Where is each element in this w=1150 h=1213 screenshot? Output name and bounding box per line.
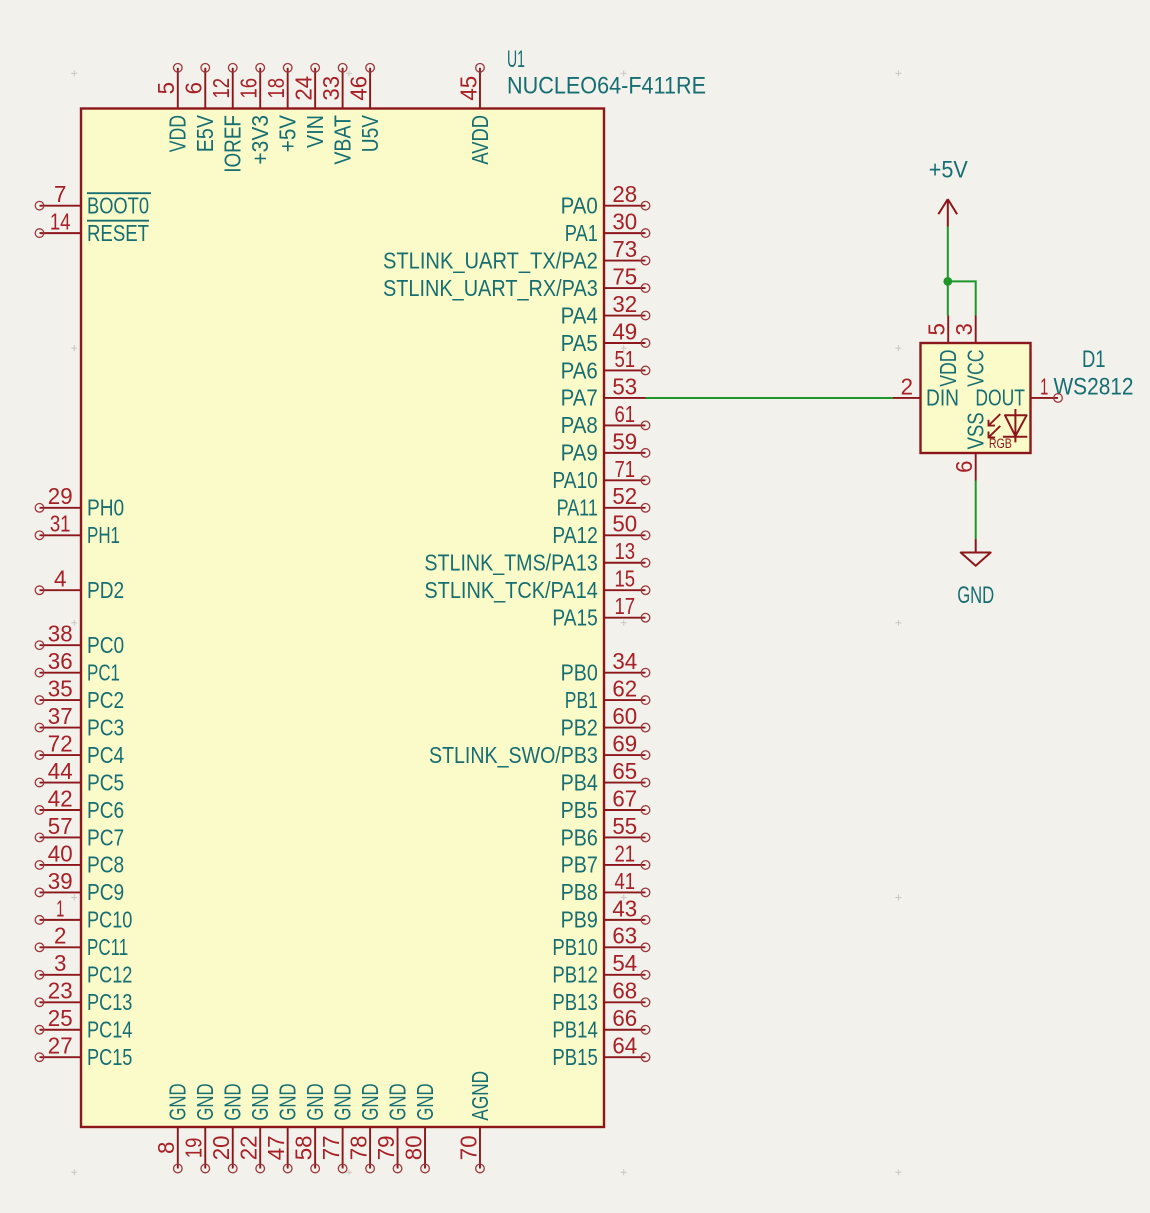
- svg-text:GND: GND: [412, 1083, 438, 1120]
- svg-text:+3V3: +3V3: [247, 115, 273, 165]
- svg-text:29: 29: [48, 483, 73, 509]
- svg-text:1: 1: [1040, 373, 1048, 399]
- svg-text:78: 78: [346, 1135, 372, 1160]
- svg-text:62: 62: [612, 676, 637, 702]
- D1 pin 2 DIN (left): [893, 373, 959, 410]
- U1 pin 65 PB4 (right): [561, 758, 650, 795]
- U1 pin 57 PC7 (left): [35, 813, 124, 850]
- svg-text:6: 6: [951, 461, 977, 473]
- svg-text:VIN: VIN: [302, 115, 328, 148]
- U1 pin 55 PB6 (right): [561, 813, 650, 850]
- U1 pin 77 GND (bottom): [318, 1083, 355, 1172]
- svg-text:PA7: PA7: [561, 385, 598, 411]
- svg-text:RESET: RESET: [87, 220, 149, 246]
- svg-text:12: 12: [208, 78, 234, 99]
- svg-text:30: 30: [612, 209, 637, 235]
- U1 pin 31 PH1 (left): [35, 511, 120, 548]
- svg-text:37: 37: [48, 703, 73, 729]
- svg-text:80: 80: [400, 1135, 426, 1160]
- svg-text:U1: U1: [507, 46, 525, 73]
- U1 pin 59 PA9 (right): [561, 428, 650, 465]
- svg-text:GND: GND: [275, 1083, 301, 1120]
- power symbol +5V: [929, 156, 968, 226]
- U1 pin 27 PC15 (left): [35, 1033, 132, 1070]
- svg-text:PB5: PB5: [561, 797, 598, 823]
- U1 pin 2 PC11 (left): [35, 923, 128, 960]
- svg-text:STLINK_TMS/PA13: STLINK_TMS/PA13: [424, 550, 597, 576]
- U1 pin 36 PC1 (left): [35, 648, 120, 685]
- svg-text:65: 65: [612, 758, 637, 784]
- svg-text:GND: GND: [357, 1083, 383, 1120]
- U1 pin 15 STLINK_TCK/PA14 (right): [424, 566, 649, 603]
- svg-text:2: 2: [901, 373, 913, 399]
- U1 pin 71 PA10 (right): [552, 456, 649, 493]
- svg-text:PC5: PC5: [87, 769, 124, 795]
- U1 pin 62 PB1 (right): [565, 676, 650, 713]
- svg-text:25: 25: [48, 1005, 73, 1031]
- U1 pin 23 PC13 (left): [35, 978, 132, 1015]
- U1 pin 41 PB8 (right): [561, 868, 650, 905]
- U1 pin 16 +3V3 (top): [236, 64, 273, 165]
- U1 pin 19 GND (bottom): [181, 1083, 218, 1172]
- U1 pin 30 PA1 (right): [565, 209, 650, 246]
- U1 pin 24 VIN (top): [291, 64, 328, 149]
- U1 pin 38 PC0 (left): [35, 621, 124, 658]
- U1 pin 58 GND (bottom): [291, 1083, 328, 1172]
- svg-text:PC4: PC4: [87, 742, 124, 768]
- svg-text:PB9: PB9: [561, 907, 598, 933]
- svg-text:42: 42: [48, 785, 73, 811]
- svg-text:77: 77: [318, 1135, 344, 1160]
- svg-text:GND: GND: [329, 1083, 355, 1120]
- svg-text:71: 71: [615, 456, 636, 482]
- svg-text:PA0: PA0: [561, 193, 598, 219]
- U1 pin 3 PC12 (left): [35, 950, 132, 987]
- svg-text:PA11: PA11: [557, 495, 598, 521]
- svg-text:AVDD: AVDD: [467, 115, 493, 165]
- D1 pin 3 VCC (top): [951, 316, 988, 387]
- svg-text:GND: GND: [165, 1083, 191, 1120]
- U1 pin 4 PD2 (left): [35, 566, 124, 603]
- U1 pin 44 PC5 (left): [35, 758, 124, 795]
- svg-text:E5V: E5V: [192, 114, 218, 152]
- U1 pin 29 PH0 (left): [35, 483, 124, 520]
- svg-text:50: 50: [612, 511, 637, 537]
- svg-text:+5V: +5V: [275, 114, 301, 152]
- svg-text:19: 19: [181, 1138, 207, 1159]
- svg-text:VSS: VSS: [963, 412, 989, 449]
- svg-text:GND: GND: [384, 1083, 410, 1120]
- svg-text:PH1: PH1: [87, 522, 120, 548]
- U1 pin 50 PA12 (right): [552, 511, 649, 548]
- svg-text:21: 21: [615, 840, 636, 866]
- svg-text:+5V: +5V: [929, 156, 968, 183]
- svg-text:38: 38: [48, 621, 73, 647]
- svg-text:33: 33: [318, 76, 344, 101]
- svg-text:PA4: PA4: [561, 302, 598, 328]
- D1 pin 6 VSS (bottom): [951, 412, 988, 480]
- svg-text:STLINK_UART_TX/PA2: STLINK_UART_TX/PA2: [383, 247, 598, 273]
- svg-text:PA6: PA6: [561, 357, 598, 383]
- svg-text:GND: GND: [957, 582, 994, 609]
- U1 pin 78 GND (bottom): [346, 1083, 383, 1172]
- svg-text:31: 31: [50, 511, 71, 537]
- U1 pin 66 PB14 (right): [552, 1005, 649, 1042]
- svg-text:36: 36: [48, 648, 73, 674]
- U1 pin 68 PB13 (right): [552, 978, 649, 1015]
- svg-text:GND: GND: [220, 1083, 246, 1120]
- U1 pin 43 PB9 (right): [561, 895, 650, 932]
- wire PA7 to DIN: [646, 397, 894, 399]
- U1 pin 37 PC3 (left): [35, 703, 124, 740]
- svg-text:PB2: PB2: [561, 714, 598, 740]
- U1 pin 64 PB15 (right): [552, 1033, 649, 1070]
- svg-text:PC15: PC15: [87, 1044, 132, 1070]
- D1 pin 5 VDD (top): [924, 316, 961, 387]
- U1 pin 33 VBAT (top): [318, 64, 355, 165]
- svg-text:BOOT0: BOOT0: [87, 193, 149, 219]
- U1 pin 39 PC9 (left): [35, 868, 124, 905]
- svg-text:STLINK_TCK/PA14: STLINK_TCK/PA14: [424, 577, 597, 603]
- U1 pin 32 PA4 (right): [561, 291, 650, 328]
- svg-text:40: 40: [48, 840, 73, 866]
- U1 pin 69 STLINK_SWO/PB3 (right): [429, 730, 650, 767]
- svg-text:STLINK_SWO/PB3: STLINK_SWO/PB3: [429, 742, 598, 768]
- U1 pin 61 PA8 (right): [561, 401, 650, 438]
- svg-text:34: 34: [612, 648, 637, 674]
- svg-text:27: 27: [48, 1033, 73, 1059]
- svg-text:53: 53: [612, 373, 637, 399]
- svg-text:79: 79: [373, 1135, 399, 1160]
- U1 pin 72 PC4 (left): [35, 730, 124, 767]
- svg-text:PB13: PB13: [552, 989, 597, 1015]
- svg-text:75: 75: [612, 264, 637, 290]
- U1 pin 79 GND (bottom): [373, 1083, 410, 1172]
- U1 pin 75 STLINK_UART_RX/PA3 (right): [383, 264, 650, 301]
- U1 pin 54 PB12 (right): [552, 950, 649, 987]
- D1 pin 1 DOUT (right): [975, 373, 1062, 410]
- svg-text:PB14: PB14: [552, 1017, 597, 1043]
- U1 pin 1 PC10 (left): [35, 895, 132, 932]
- svg-text:20: 20: [208, 1135, 234, 1160]
- D1 internal LED graphic with RGB label: [989, 409, 1028, 451]
- U1 pin 17 PA15 (right): [552, 593, 649, 630]
- svg-text:PC9: PC9: [87, 879, 124, 905]
- svg-text:43: 43: [612, 895, 637, 921]
- U1 pin 13 STLINK_TMS/PA13 (right): [424, 538, 649, 575]
- svg-text:7: 7: [54, 181, 66, 207]
- svg-text:PB15: PB15: [552, 1044, 597, 1070]
- svg-text:13: 13: [615, 538, 636, 564]
- U1 pin 22 GND (bottom): [236, 1083, 273, 1172]
- svg-text:PA9: PA9: [561, 440, 598, 466]
- svg-text:51: 51: [615, 346, 636, 372]
- svg-text:15: 15: [615, 566, 636, 592]
- svg-text:PB4: PB4: [561, 769, 598, 795]
- U1 pin 20 GND (bottom): [208, 1083, 245, 1172]
- svg-text:22: 22: [236, 1135, 262, 1160]
- U1 pin 73 STLINK_UART_TX/PA2 (right): [383, 236, 650, 273]
- svg-text:59: 59: [612, 428, 637, 454]
- svg-text:U5V: U5V: [357, 114, 383, 152]
- svg-text:PD2: PD2: [87, 577, 124, 603]
- svg-text:PA15: PA15: [552, 605, 597, 631]
- svg-text:PA12: PA12: [552, 522, 597, 548]
- svg-text:6: 6: [181, 82, 207, 94]
- svg-text:46: 46: [346, 76, 372, 101]
- svg-text:44: 44: [48, 758, 73, 784]
- svg-text:2: 2: [54, 923, 66, 949]
- svg-text:61: 61: [615, 401, 636, 427]
- svg-text:52: 52: [612, 483, 637, 509]
- U1 pin 46 U5V (top): [346, 64, 383, 153]
- U1 pin 42 PC6 (left): [35, 785, 124, 822]
- U1 pin 53 PA7 (right): [561, 373, 646, 410]
- U1 pin 51 PA6 (right): [561, 346, 650, 383]
- svg-text:73: 73: [612, 236, 637, 262]
- svg-text:57: 57: [48, 813, 73, 839]
- svg-text:PB0: PB0: [561, 659, 598, 685]
- svg-text:55: 55: [612, 813, 637, 839]
- svg-text:DIN: DIN: [926, 385, 959, 411]
- svg-text:54: 54: [612, 950, 637, 976]
- svg-text:PC0: PC0: [87, 632, 124, 658]
- svg-text:23: 23: [48, 978, 73, 1004]
- svg-text:PB8: PB8: [561, 879, 598, 905]
- svg-text:PC1: PC1: [87, 659, 120, 685]
- svg-text:RGB: RGB: [989, 436, 1012, 451]
- U1 pin 70 AGND (bottom): [455, 1071, 492, 1173]
- svg-text:PA10: PA10: [552, 467, 597, 493]
- U1 pin 6 E5V (top): [181, 64, 218, 153]
- svg-text:VDD: VDD: [165, 115, 191, 152]
- U1 pin 7 BOOT0 (left): [35, 181, 151, 218]
- svg-text:39: 39: [48, 868, 73, 894]
- svg-text:16: 16: [236, 78, 262, 99]
- svg-text:PC7: PC7: [87, 824, 124, 850]
- svg-text:35: 35: [48, 676, 73, 702]
- grid reference crosses: [71, 70, 901, 1175]
- svg-text:41: 41: [615, 868, 636, 894]
- svg-text:24: 24: [291, 76, 317, 101]
- U1 pin 35 PC2 (left): [35, 676, 124, 713]
- svg-text:60: 60: [612, 703, 637, 729]
- U1 pin 12 IOREF (top): [208, 64, 245, 173]
- svg-text:GND: GND: [192, 1083, 218, 1120]
- U1 pin 40 PC8 (left): [35, 840, 124, 877]
- U1 pin 21 PB7 (right): [561, 840, 650, 877]
- svg-text:3: 3: [54, 950, 66, 976]
- svg-text:VCC: VCC: [963, 350, 989, 387]
- svg-text:1: 1: [56, 895, 64, 921]
- op-amp U1 NUCLEO64-F411RE symbol body: [81, 109, 604, 1128]
- svg-text:PA5: PA5: [561, 330, 598, 356]
- svg-text:D1: D1: [1082, 346, 1106, 373]
- U1 pin 8 GND (bottom): [153, 1083, 190, 1172]
- U1 pin 28 PA0 (right): [561, 181, 650, 218]
- svg-text:47: 47: [263, 1135, 289, 1160]
- svg-text:67: 67: [612, 785, 637, 811]
- U1 pin 34 PB0 (right): [561, 648, 650, 685]
- svg-text:18: 18: [263, 78, 289, 99]
- svg-text:NUCLEO64-F411RE: NUCLEO64-F411RE: [507, 73, 706, 100]
- U1 pin 49 PA5 (right): [561, 318, 650, 355]
- svg-text:PA8: PA8: [561, 412, 598, 438]
- svg-text:WS2812: WS2812: [1054, 374, 1134, 401]
- U1 pin 80 GND (bottom): [400, 1083, 437, 1172]
- svg-text:17: 17: [615, 593, 636, 619]
- U1 pin 60 PB2 (right): [561, 703, 650, 740]
- U1 pin 45 AVDD (top): [455, 64, 492, 165]
- svg-text:PC14: PC14: [87, 1017, 132, 1043]
- U1 pin 14 RESET (left): [35, 209, 149, 246]
- svg-text:72: 72: [48, 730, 73, 756]
- svg-text:DOUT: DOUT: [975, 385, 1025, 411]
- svg-text:3: 3: [951, 323, 977, 335]
- svg-text:58: 58: [291, 1135, 317, 1160]
- U1 pin 63 PB10 (right): [552, 923, 649, 960]
- svg-text:68: 68: [612, 978, 637, 1004]
- svg-text:PC12: PC12: [87, 962, 132, 988]
- svg-text:PC2: PC2: [87, 687, 124, 713]
- U1 pin 5 VDD (top): [153, 64, 190, 153]
- svg-text:PC13: PC13: [87, 989, 132, 1015]
- svg-text:32: 32: [612, 291, 637, 317]
- svg-text:PB12: PB12: [552, 962, 597, 988]
- svg-text:PC11: PC11: [87, 934, 128, 960]
- svg-text:64: 64: [612, 1033, 637, 1059]
- svg-text:49: 49: [612, 318, 637, 344]
- svg-text:PB6: PB6: [561, 824, 598, 850]
- svg-text:8: 8: [153, 1142, 179, 1154]
- svg-text:28: 28: [612, 181, 637, 207]
- svg-text:GND: GND: [247, 1083, 273, 1120]
- svg-text:PC6: PC6: [87, 797, 124, 823]
- svg-text:PC10: PC10: [87, 907, 132, 933]
- svg-text:4: 4: [54, 566, 66, 592]
- svg-text:VBAT: VBAT: [329, 115, 355, 165]
- junction at +5V branch: [943, 277, 952, 286]
- svg-text:45: 45: [455, 76, 481, 101]
- svg-text:PA1: PA1: [565, 220, 598, 246]
- wire +5V to VDD pin of D1: [947, 227, 949, 316]
- wire branch to VCC pin of D1: [948, 281, 976, 315]
- svg-text:14: 14: [50, 209, 71, 235]
- U1 pin 52 PA11 (right): [557, 483, 650, 520]
- svg-text:5: 5: [924, 323, 950, 335]
- U1 pin 25 PC14 (left): [35, 1005, 132, 1042]
- svg-text:5: 5: [153, 82, 179, 94]
- U1 pin 67 PB5 (right): [561, 785, 650, 822]
- ground symbol GND: [957, 539, 994, 609]
- svg-text:PB7: PB7: [561, 852, 598, 878]
- svg-text:PB1: PB1: [565, 687, 598, 713]
- svg-text:PC8: PC8: [87, 852, 124, 878]
- svg-text:69: 69: [612, 730, 637, 756]
- wire VSS to GND: [975, 481, 977, 540]
- svg-text:PH0: PH0: [87, 495, 124, 521]
- svg-text:AGND: AGND: [467, 1071, 493, 1121]
- svg-text:63: 63: [612, 923, 637, 949]
- svg-text:VDD: VDD: [935, 350, 961, 387]
- svg-text:66: 66: [612, 1005, 637, 1031]
- U1 pin 47 GND (bottom): [263, 1083, 300, 1172]
- LED D1 WS2812 symbol body: [921, 343, 1031, 453]
- svg-text:IOREF: IOREF: [220, 115, 246, 173]
- svg-text:PB10: PB10: [552, 934, 597, 960]
- svg-text:PC3: PC3: [87, 714, 124, 740]
- svg-text:STLINK_UART_RX/PA3: STLINK_UART_RX/PA3: [383, 275, 598, 301]
- U1 pin 18 +5V (top): [263, 64, 300, 153]
- svg-text:70: 70: [455, 1135, 481, 1160]
- svg-text:GND: GND: [302, 1083, 328, 1120]
